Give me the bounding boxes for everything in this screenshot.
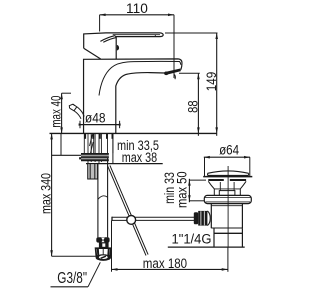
svg-text:110: 110 [126, 1, 148, 16]
mounting nut [79, 153, 109, 161]
shank thread marks [90, 135, 93, 147]
svg-text:149: 149 [204, 72, 219, 92]
svg-text:max 38: max 38 [122, 150, 157, 165]
dimension O48 [79, 110, 121, 128]
label 1"1/4G [168, 231, 214, 247]
stem guide block [219, 191, 235, 196]
dimension max 180 [112, 221, 228, 272]
spout inner fillet curve [99, 61, 181, 95]
drain tailpiece [214, 228, 245, 247]
svg-text:max 40: max 40 [48, 96, 63, 128]
horizontal rod to drain [112, 217, 196, 221]
dimension max 40 [48, 93, 71, 133]
pull rod knob [69, 104, 84, 119]
supply pipe [98, 158, 108, 237]
svg-text:1"1/4G: 1"1/4G [172, 231, 212, 246]
svg-text:ø48: ø48 [85, 110, 106, 125]
drain cap seal [208, 179, 246, 181]
drain centerline [227, 166, 229, 247]
svg-text:max 340: max 340 [38, 173, 53, 214]
body left edge and top edge to tip [84, 59, 182, 133]
svg-text:max 180: max 180 [143, 256, 187, 271]
svg-text:88: 88 [185, 100, 200, 113]
dimension min 33 max 50 bracket [162, 171, 206, 208]
faucet handle lever [84, 33, 164, 59]
spout underside curve from body right edge [116, 73, 165, 134]
svg-text:G3/8": G3/8" [57, 270, 87, 287]
pivot ball [127, 216, 136, 225]
dimension 88 [179, 73, 200, 136]
G3/8 fitting [96, 237, 111, 261]
hose nipple stub [88, 164, 98, 179]
svg-text:max 50: max 50 [175, 171, 190, 208]
spout aerator [164, 69, 181, 80]
counter bottom line [52, 154, 86, 156]
svg-text:ø64: ø64 [219, 142, 239, 157]
drain cap dome [203, 171, 252, 177]
faucet body and spout outline [84, 59, 182, 133]
drain neck [208, 181, 246, 195]
dimension max 340 [38, 133, 96, 256]
drain body [211, 204, 242, 229]
dimension O64 [204, 142, 250, 176]
handle marker dot [117, 45, 119, 50]
counter left cut edge [60, 133, 62, 155]
drain pivot nut [194, 211, 210, 226]
pop-up rod diagonal [108, 165, 148, 255]
dimension 149 [165, 33, 219, 136]
counter top line [50, 132, 217, 134]
shank top hatch [84, 133, 86, 138]
label min 33,5 max 38 bracket [86, 133, 163, 165]
drain flange ring [204, 195, 251, 203]
dimension 110 [100, 1, 174, 78]
threaded shank, pull rod and tails under counter [84, 133, 113, 163]
label G3/8 with leader [51, 262, 101, 287]
